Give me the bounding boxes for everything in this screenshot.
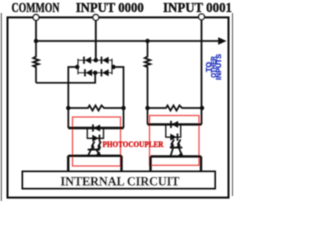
PC2 LED bypass loop — [166, 124, 181, 137]
wire: PC1 output drop left — [67, 156, 69, 172]
junction dot (resistor wire right input0000) — [121, 106, 125, 110]
wire: PC1 output bottom — [68, 155, 121, 157]
light arrows PC2 — [170, 139, 175, 147]
resistor R3 common side input0001 — [145, 41, 151, 124]
diode D1 (bridge top-left) — [83, 57, 91, 64]
diode D4 (bridge bottom-right) — [101, 69, 109, 76]
light arrows PC1 — [90, 141, 95, 149]
terminal INPUT 0000 — [93, 15, 99, 21]
resistor R2 bleeder input0000 — [68, 105, 123, 110]
PC2 LED D7 (on wire, pointing left) — [170, 121, 178, 128]
junction dot (resistor wire left input0000) — [66, 106, 70, 110]
terminal INPUT 0001 — [199, 14, 205, 20]
wire: PC2 output drop right — [200, 156, 202, 171]
arrow to other inputs — [218, 37, 226, 45]
junction dot (resistor wire left input0001) — [145, 106, 149, 110]
svg-text:INPUTS: INPUTS — [214, 54, 223, 80]
junction dot (resistor wire right input0001) — [200, 106, 204, 110]
PC1 LED D5 (on wire, pointing left) — [92, 124, 100, 131]
PC2 LED D8 (bottom branch, pointing right) — [170, 134, 178, 141]
label TO OTHER INPUTS — [204, 54, 223, 80]
phototransistor Q1 — [88, 149, 100, 151]
svg-text:INPUT 0001: INPUT 0001 — [163, 0, 232, 15]
svg-text:PHOTOCOUPLER: PHOTOCOUPLER — [103, 139, 165, 149]
junction dot (bridge right) — [111, 65, 115, 69]
diode D2 (bridge top-right) — [101, 57, 109, 64]
internal circuit box — [23, 172, 216, 189]
wire: bridge right output to right column — [114, 67, 124, 128]
junction dot (bridge top mid) — [94, 58, 98, 62]
figure outer border (left) — [0, 13, 3, 201]
photocoupler PC1 package box — [73, 117, 121, 166]
unit enclosure frame — [8, 17, 229, 197]
svg-text:INPUT 0000: INPUT 0000 — [76, 0, 144, 15]
wire: PC1 output drop right — [120, 156, 122, 172]
svg-text:COMMON: COMMON — [12, 0, 60, 15]
photocoupler PC2 package box — [150, 116, 200, 166]
PC1 LED bypass loop — [87, 128, 103, 138]
wire: bridge top row — [78, 59, 112, 61]
wire: common return to bridge bottom — [36, 73, 95, 83]
resistor R1 common side input0000 — [33, 41, 39, 83]
junction dot (bridge bottom mid) — [93, 71, 97, 75]
wire: INPUT 0000 terminal drop — [95, 20, 97, 60]
phototransistor Q2 — [170, 147, 182, 149]
diode bridge outline: left bar — [77, 59, 79, 75]
wire: PC2 output bottom — [151, 155, 202, 157]
wire: bridge bottom row — [78, 72, 112, 74]
junction dot (bridge left) — [75, 65, 79, 69]
wire: PC1 LED node wire — [68, 127, 123, 129]
wire: PC2 output drop left — [149, 156, 151, 171]
junction dot (rail branch to input 0001 cell) — [145, 39, 149, 43]
wire: COMMON terminal drop — [35, 20, 37, 41]
resistor R4 bleeder input0001 — [148, 105, 202, 110]
diode bridge outline: right bar — [111, 59, 113, 75]
figure outer border (right) — [232, 13, 233, 196]
wire: common rail — [36, 40, 220, 42]
diode D3 (bridge bottom-left) — [84, 69, 92, 76]
wire: INPUT 0001 terminal drop — [201, 20, 203, 124]
wire: PC2 LED node wire — [148, 123, 202, 125]
PC1 LED D6 (bottom branch, pointing right) — [92, 135, 100, 142]
svg-text:INTERNAL CIRCUIT: INTERNAL CIRCUIT — [61, 173, 180, 188]
terminal COMMON — [33, 15, 39, 21]
junction dot (rail at COMMON column) — [34, 39, 38, 43]
wire: bridge left output to left column — [68, 67, 77, 128]
